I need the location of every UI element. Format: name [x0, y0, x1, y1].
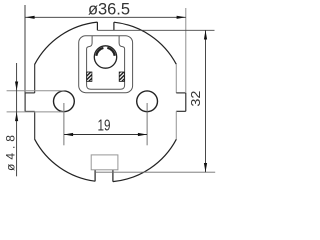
left bulge step (lower) [25, 110, 35, 112]
bottom earth clip window (grey rect) [91, 155, 118, 170]
dim Ø36.5: dimension line [25, 16, 185, 18]
dim Ø4.8: lower arrow [15, 112, 18, 121]
dim Ø4.8: top extension line [7, 90, 65, 92]
hatched contact section (left) [87, 72, 92, 81]
dim 32: top extension line / top notch floor [97, 29, 214, 31]
left pin hole Ø4.8 [54, 91, 75, 112]
dim Ø36.5: left arrow [25, 16, 34, 19]
dim 32: top arrow [204, 30, 207, 39]
right flat (lower) [175, 111, 177, 139]
dim 19: left arrow [64, 133, 73, 136]
dim Ø36.5: left extension line [24, 5, 26, 93]
dim 19: right arrow [138, 133, 147, 136]
svg-text:32: 32 [188, 91, 203, 107]
hatched contact section (right) [119, 72, 124, 81]
right pin hole Ø4.8 [137, 91, 158, 112]
earth pin hole circle [94, 46, 116, 68]
right bulge step (lower) [176, 110, 186, 112]
dim 19: dimension line [64, 134, 147, 136]
dim Ø36.5: right extension line [185, 8, 187, 93]
dim 19: right extension line [146, 103, 148, 145]
earth-pin housing: inner slot contour [87, 36, 125, 89]
dim 32: bottom arrow [204, 163, 207, 172]
left flat (lower) [34, 111, 36, 139]
dim Ø4.8: upper arrow [15, 82, 18, 91]
right bulge step (upper) [176, 92, 186, 94]
bottom earth groove notch (right wall) [112, 170, 114, 182]
top earth groove notch (right wall) [113, 22, 115, 30]
dim 32: bottom extension line / bottom notch floor [95, 171, 215, 173]
svg-text:19: 19 [98, 118, 111, 135]
plug body bottom-left arc [35, 139, 95, 181]
top earth groove notch (left wall) [96, 22, 98, 30]
dim Ø4.8: bottom extension line [7, 111, 65, 113]
svg-text:ø36.5: ø36.5 [88, 1, 130, 19]
earth-pin housing: outer rounded rect [79, 36, 133, 93]
left flat (upper) [34, 64, 36, 93]
left bulge edge [24, 93, 26, 112]
left bulge step (upper) [25, 92, 35, 94]
right bulge edge [185, 93, 187, 111]
dim 19: left extension line [63, 103, 65, 145]
plug body top-left arc [35, 22, 98, 64]
bottom earth groove notch (left wall) [94, 170, 96, 182]
plug body bottom-right arc [113, 139, 176, 181]
earth contact arc (right) [107, 48, 114, 56]
right flat (upper) [175, 64, 177, 93]
plug body top-right arc [114, 22, 176, 64]
dim 32: dimension line [205, 30, 207, 172]
dim Ø36.5: right arrow [177, 16, 186, 19]
earth contact arc (left) [96, 48, 103, 56]
dim Ø4.8: dimension line [16, 63, 18, 176]
